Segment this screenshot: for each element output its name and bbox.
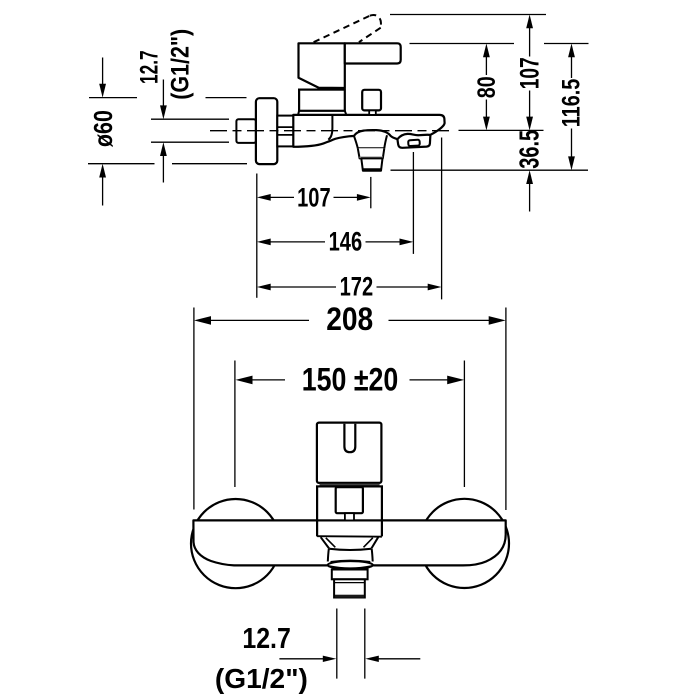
172 extension line [441,138,443,300]
diverter stem (front) [345,513,354,520]
collar gray line [360,156,384,158]
dim 36.5 lower arrow [529,183,531,212]
dim 80 line [485,56,487,118]
svg-text:(G1/2"): (G1/2") [167,29,195,100]
dim 12.7 top extension line [151,118,229,120]
wall plane extension line [256,174,258,298]
dashed lever (raised position) [314,16,370,43]
wall bar body (front) [193,520,505,565]
thread piece lower [334,579,365,597]
front column below bar top [317,520,382,536]
bell sides front [328,549,373,562]
dim 12.7 bottom left arrow [279,658,324,660]
ext line spout bottom right [391,169,589,171]
handle (front) [317,423,382,483]
dim 116.5 line [571,56,573,158]
dim ø60 top arrow [102,58,104,85]
svg-text:12.7: 12.7 [136,50,164,84]
svg-text:146: 146 [329,227,363,257]
cone trapezoid outer slants [321,537,379,548]
handle block (side) [299,43,345,88]
ext line top (lever top) [390,14,546,16]
dim 12.7 top arrow [162,80,164,107]
spout bell left edge [354,136,358,148]
cone bottom arc [329,549,371,550]
handle arm (side) [345,43,401,63]
cartridge ring base flare [298,111,346,115]
gray joint band [320,484,380,487]
dim 107 (horizontal) [270,196,359,198]
shower connector bump top wave [397,134,430,139]
thread dark bottom band [335,595,364,598]
svg-text:172: 172 [340,272,374,302]
centerline (axis) dashed [210,130,451,132]
dim 150±20 line [249,379,452,381]
handle slot (front) [344,424,355,453]
146 extension line [412,152,414,254]
outlet center extension line [370,177,372,208]
svg-text:208: 208 [326,301,373,337]
dim 146 (horizontal) [270,241,402,243]
dim 12.7 bottom extension lines [337,609,365,679]
dim 172 (horizontal) [270,286,430,288]
svg-text:36.5: 36.5 [513,130,544,169]
dim 208 extension lines [194,308,506,511]
dim 208 line [207,319,493,321]
dim 12.7 bottom arrow [162,156,164,183]
svg-text:107: 107 [515,57,545,89]
dim 12.7 bottom extension line [151,141,229,143]
diverter stem (side) [369,110,376,115]
ext line handle top [410,43,589,45]
hex nut facet lines [277,127,293,135]
thread piece upper [332,570,368,580]
aerator (lower outlet section) [361,158,382,170]
hex nut [277,116,293,147]
diverter knob (front) [336,487,363,513]
ring bottom thick arc [329,566,372,568]
left wall escutcheon circle [191,499,280,588]
right wall escutcheon circle [420,499,509,588]
spout collar (upper outlet section) [358,148,385,158]
svg-text:ø60: ø60 [88,110,118,147]
outlet ring (front) [328,561,373,569]
supply nipple G1/2 [236,119,256,143]
body ring (front) [317,486,382,520]
svg-text:(G1/2"): (G1/2") [215,663,308,694]
thread inner line [334,582,365,584]
aerator dark band [363,168,382,171]
ext line axis right [459,129,544,131]
body seam line (fillet from column to body top) [328,115,332,140]
dim ø60 bottom arrow [102,177,104,206]
svg-text:80: 80 [473,76,501,98]
dim 107 right line [529,27,531,118]
cartridge ring (side) [299,90,345,111]
ring inner top arc [331,560,371,561]
svg-text:12.7: 12.7 [242,623,291,655]
dim 150±20 extension lines [235,361,465,488]
mixer body outline [293,115,444,148]
svg-text:107: 107 [297,183,331,213]
column bottom edge [317,535,382,538]
cone trapezoid inner slants [326,538,373,548]
spout bell right edge [384,135,387,148]
wall escutcheon flange [256,98,277,164]
diverter knob (side) [362,90,381,111]
dim 12.7 bottom right arrow [378,658,421,660]
shower connector inner rectangle [408,140,420,146]
dim ø60 bottom extension line [88,163,247,165]
svg-text:150 ±20: 150 ±20 [302,362,399,398]
dim ø60 top extension line [89,97,247,99]
spout collar top line [358,147,385,149]
svg-text:116.5: 116.5 [558,79,586,128]
